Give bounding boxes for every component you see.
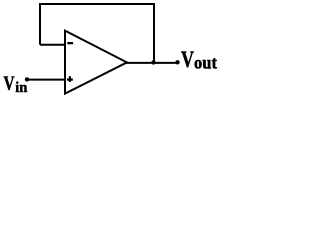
svg-text:in: in	[15, 80, 27, 96]
svg-text:out: out	[194, 53, 217, 73]
svg-text:V: V	[181, 47, 194, 72]
svg-text:V: V	[4, 74, 15, 95]
